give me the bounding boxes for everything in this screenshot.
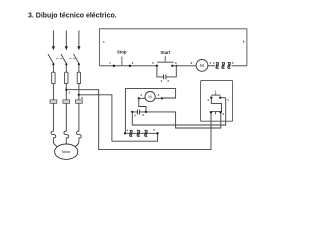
fuse F3 <box>77 72 80 83</box>
wire tap1 to start-left (control feed) <box>66 90 211 150</box>
svg-text:3: 3 <box>191 61 193 65</box>
rung wire start to coil <box>172 65 196 67</box>
rung wire left <box>99 65 156 67</box>
arrowhead L2 <box>65 46 68 50</box>
node tap2 on L3 <box>78 94 80 96</box>
holding contact (wiring diagram) <box>131 110 147 118</box>
svg-text:1: 1 <box>215 90 217 94</box>
rung wire coil to OL contacts <box>208 65 215 67</box>
svg-text:4: 4 <box>127 129 129 133</box>
arrowhead L1 <box>52 46 55 50</box>
wire fuse3 to contact3 <box>78 84 80 100</box>
switch blade 1 <box>48 54 54 64</box>
svg-text:6: 6 <box>243 40 245 44</box>
svg-text:Stop: Stop <box>117 50 127 55</box>
svg-text:1: 1 <box>103 40 105 44</box>
svg-text:2: 2 <box>208 98 210 102</box>
svg-text:Start: Start <box>160 50 170 55</box>
supply line L2 <box>65 31 67 47</box>
svg-text:1: 1 <box>109 61 111 65</box>
supply line L3 <box>78 31 80 47</box>
overload contact row (wiring diagram) <box>124 128 159 136</box>
arrowhead L3 <box>77 46 80 50</box>
node tap1 on L2 <box>65 89 67 91</box>
switch blade 2 <box>61 54 67 64</box>
wire blade2 to fuse2 <box>65 64 67 72</box>
coil M (ladder) <box>196 60 208 72</box>
svg-text:6: 6 <box>81 96 83 100</box>
coil terminal 4 <box>161 97 163 99</box>
wire contact2 to OL2 <box>65 103 67 130</box>
wire stop-left to start-right (inside station) <box>211 98 221 113</box>
motor lead 3 <box>75 140 79 147</box>
wire fuse1 to contact1 <box>52 84 54 100</box>
holding contact branch (ladder) <box>157 65 177 83</box>
blade contact dot 3 <box>78 63 80 65</box>
overload heater OL1 <box>51 130 56 140</box>
svg-text:Motor: Motor <box>62 150 72 154</box>
svg-text:3: 3 <box>167 79 169 83</box>
overload heater OL3 <box>77 130 82 140</box>
contactor main contact 2 <box>63 100 70 103</box>
wire contact3 to OL3 <box>78 103 80 130</box>
svg-text:2: 2 <box>132 61 134 65</box>
start pushbutton (station) <box>210 111 225 116</box>
overload heater OL2 <box>64 130 69 140</box>
svg-text:5: 5 <box>232 61 234 65</box>
wire blade1 to fuse1 <box>52 64 54 72</box>
svg-text:3: 3 <box>223 112 225 116</box>
svg-text:2: 2 <box>161 79 163 83</box>
svg-text:3. Dibujo técnico eléctrico.: 3. Dibujo técnico eléctrico. <box>28 12 117 19</box>
fuse F2 <box>65 72 68 83</box>
wire tap2 to overload terminal 5 <box>79 95 158 141</box>
wire blade3 to fuse3 <box>78 64 80 72</box>
svg-text:3: 3 <box>175 61 177 65</box>
stop pushbutton (station) <box>208 90 222 103</box>
rung wire OL to right rail <box>232 65 247 67</box>
wire coil3 to holding contact right <box>139 98 146 112</box>
switch blade 3 <box>74 54 80 64</box>
start button (ladder) <box>152 50 177 67</box>
wire holding-right to start-right (station) <box>146 112 221 128</box>
motor lead 1 <box>53 140 57 147</box>
control ladder frame <box>99 29 247 66</box>
blade contact dot 2 <box>65 63 67 65</box>
contactor unit M coil (wiring diagram) <box>145 92 155 102</box>
coil stubs <box>139 97 162 99</box>
svg-text:M: M <box>200 63 204 68</box>
wire holding-left to stop-right (station) <box>132 98 225 125</box>
svg-text:2: 2 <box>134 113 136 117</box>
blade contact dot 1 <box>52 63 54 65</box>
wire stop-right exit <box>220 97 225 99</box>
mechanical link dashes <box>56 58 75 60</box>
svg-text:4: 4 <box>158 93 160 97</box>
motor lead 2 <box>65 140 67 144</box>
coil terminal 3 <box>138 97 140 99</box>
pushbutton station box <box>201 80 233 121</box>
contactor main contact 1 <box>50 100 57 103</box>
svg-text:5: 5 <box>153 128 155 132</box>
svg-text:4: 4 <box>210 61 212 65</box>
fuse F1 <box>52 72 55 83</box>
svg-text:M: M <box>149 95 152 99</box>
stop button (ladder) <box>109 50 134 67</box>
svg-text:3: 3 <box>141 93 143 97</box>
svg-text:4: 4 <box>213 61 215 65</box>
svg-text:2: 2 <box>152 61 154 65</box>
contactor main contact 3 <box>76 100 83 103</box>
wire fuse2 to contact2 <box>65 84 67 100</box>
svg-text:1: 1 <box>227 98 229 102</box>
svg-text:1: 1 <box>69 91 71 95</box>
wire coil4 loop to OL terminal 4 <box>125 89 175 134</box>
OL contact symbols (ladder rung) <box>216 62 231 68</box>
motor M <box>55 144 78 159</box>
svg-text:3: 3 <box>142 113 144 117</box>
wire contact1 to OL1 <box>52 103 54 130</box>
supply line L1 <box>52 31 54 47</box>
